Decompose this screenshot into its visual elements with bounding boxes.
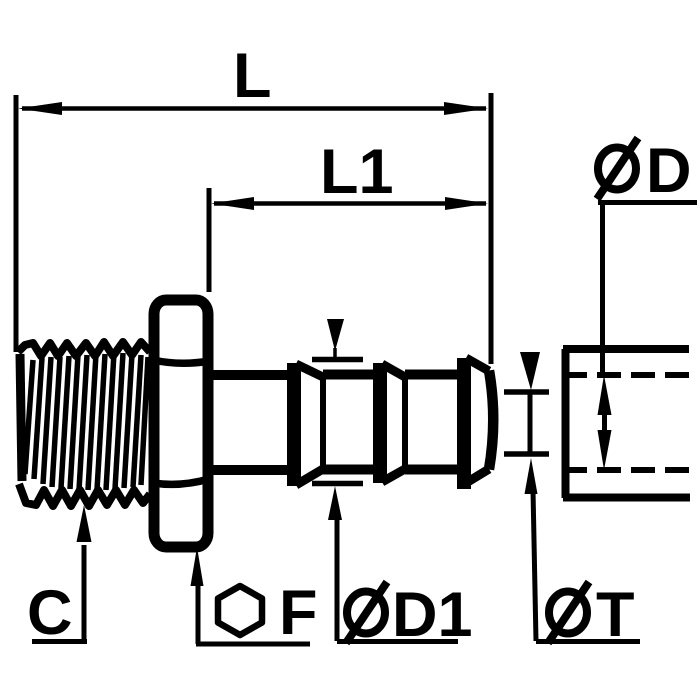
OT mid stem [528,392,533,454]
OD1 leader underline [337,639,458,644]
dimension L extension line right [489,93,494,364]
C leader underline [32,639,87,644]
tube left edge [562,349,570,498]
svg-text:L1: L1 [320,137,394,207]
tube inner bore bottom dashed line [563,467,690,473]
barb 1 left face [287,363,301,486]
barb 1 cylinder edges [323,375,377,470]
shaft bottom edge [211,465,292,475]
label C [27,578,73,648]
dimension L arrowhead right [444,102,488,115]
OT lower arrow and leader stem [525,458,538,641]
label OD1 diameter symbol [346,582,387,643]
barb 2 taper edges [382,364,405,482]
thread helix hatch lines [25,353,148,490]
hex nut upper facet line [153,360,209,363]
dimension L line [22,106,486,111]
hex nut outline [154,300,208,547]
OT upper tick [504,389,549,395]
F leader underline [196,642,310,647]
hex nut lower facet line [153,479,209,484]
svg-text:D1: D1 [392,580,473,650]
shaft top edge [211,370,292,380]
label L1 [320,137,394,207]
tip barb left face [457,358,471,489]
tube bottom edge [563,494,690,502]
label OD1 letters D1 [392,580,473,650]
svg-text:D: D [646,136,692,206]
tip end face arc [489,371,493,470]
label OD diameter symbol [597,138,638,199]
OD1 upper arrow [327,319,344,358]
thread profile outline [18,342,150,506]
tube top edge [563,345,689,353]
label F hexagon symbol [218,586,262,635]
tip taper edges [466,358,489,483]
barb 2 cylinder edges [405,375,459,470]
C leader vertical and arrow [77,505,92,641]
dimension L1 extension line left [207,188,212,292]
OT upper arrow [520,352,540,390]
OD leader vertical line [600,202,605,378]
barb 1 taper edges [296,364,323,485]
barb 2 narrow edge circle line [402,377,408,469]
label OT letter T [596,580,634,650]
dimension L extension line left [14,95,19,352]
dimension L1 arrowhead right [445,197,488,210]
OD measure stem inside tube [602,410,607,436]
F leader vertical and arrow [191,547,204,644]
label OT diameter symbol [548,582,589,643]
svg-text:T: T [596,580,634,650]
label OD letter D [646,136,692,206]
tube inner bore top dashed line [563,372,690,378]
barb 1 narrow edge circle line [320,377,326,469]
barb 2 left face [373,363,387,483]
svg-text:F: F [279,578,317,648]
OD measure arrow down inside tube [598,430,612,470]
dimension L arrowhead left [18,102,62,115]
OD leader underline [598,200,697,205]
dimension L1 arrowhead left [211,197,254,210]
svg-text:C: C [27,578,73,648]
OD1 lower tick [312,481,363,487]
OD measure arrow up inside tube [598,375,612,415]
OT lower tick [504,451,549,457]
label L [233,41,271,111]
label F letter [279,578,317,648]
OD1 lower arrow and leader stem [328,486,342,641]
OT leader underline [536,639,640,644]
dimension L1 line [214,201,486,206]
OD1 upper tick [312,357,363,363]
svg-text:L: L [233,41,271,111]
